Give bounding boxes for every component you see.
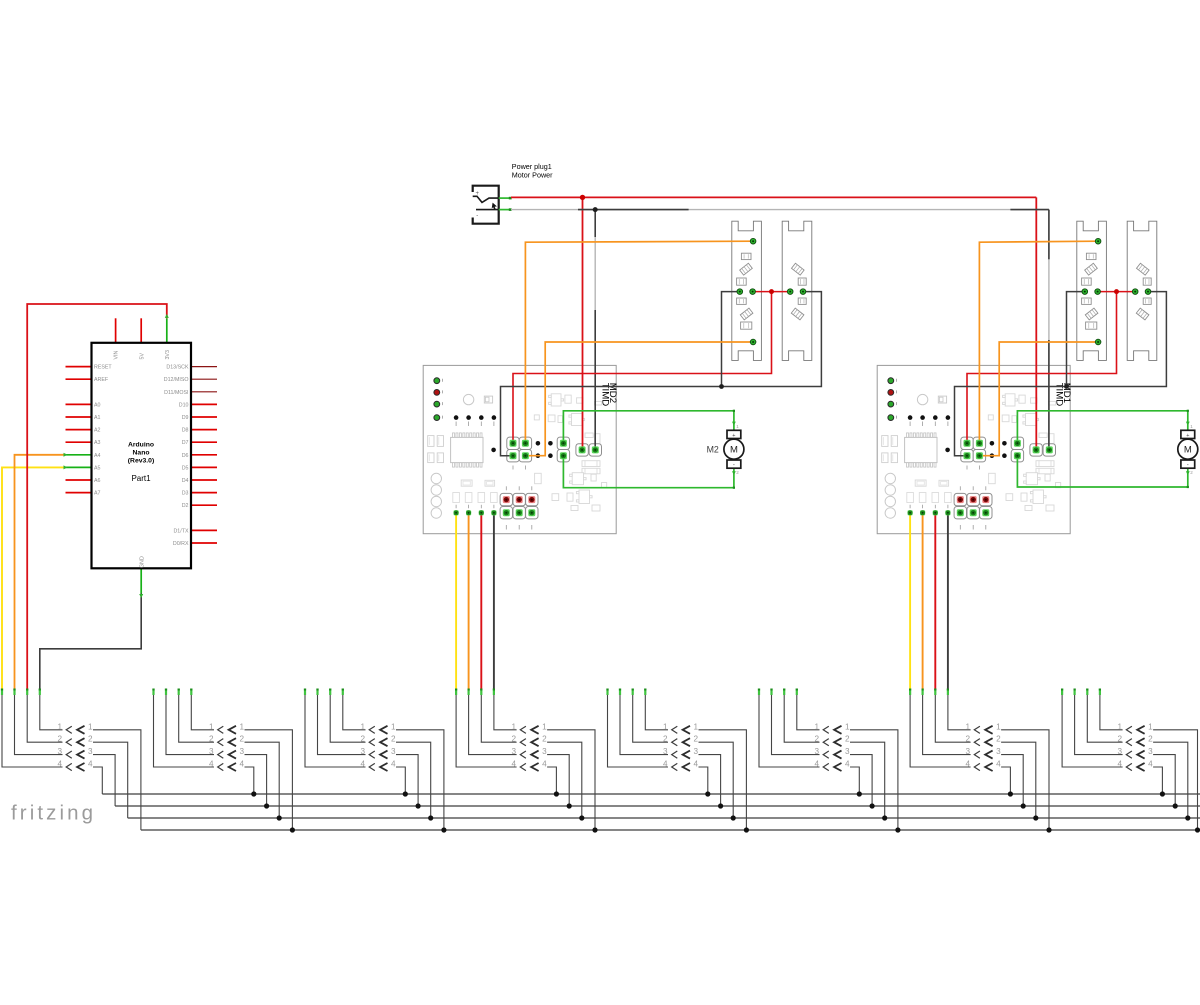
svg-text:Motor Power: Motor Power — [512, 171, 553, 180]
svg-text:4: 4 — [663, 760, 668, 769]
svg-text:2: 2 — [57, 735, 62, 744]
svg-text:D11/MOSI: D11/MOSI — [164, 390, 188, 396]
svg-text:(Rev3.0): (Rev3.0) — [128, 458, 154, 465]
svg-text:4: 4 — [814, 760, 819, 769]
svg-text:2: 2 — [814, 735, 819, 744]
svg-text:D5: D5 — [182, 465, 189, 471]
svg-text:2: 2 — [1148, 735, 1153, 744]
svg-text:+: + — [1186, 433, 1189, 439]
svg-text:4: 4 — [209, 760, 214, 769]
svg-text:fritzing: fritzing — [11, 802, 96, 825]
svg-text:A2: A2 — [94, 428, 101, 434]
svg-text:D2: D2 — [182, 503, 189, 509]
svg-text:4: 4 — [694, 760, 699, 769]
svg-text:1: 1 — [663, 722, 668, 731]
svg-text:A5: A5 — [94, 465, 101, 471]
svg-text:3: 3 — [694, 747, 699, 756]
svg-text:2: 2 — [966, 735, 971, 744]
svg-text:3: 3 — [996, 747, 1001, 756]
svg-text:AREF: AREF — [94, 377, 109, 383]
svg-text:1: 1 — [1148, 722, 1153, 731]
svg-text:2: 2 — [512, 735, 517, 744]
svg-text:4: 4 — [966, 760, 971, 769]
svg-text:3: 3 — [814, 747, 819, 756]
svg-text:5V: 5V — [139, 353, 145, 360]
svg-text:2: 2 — [542, 735, 547, 744]
svg-text:M: M — [1184, 444, 1192, 455]
svg-text:2: 2 — [845, 735, 850, 744]
svg-text:D0/RX: D0/RX — [173, 541, 189, 547]
svg-text:2: 2 — [240, 735, 245, 744]
svg-text:3: 3 — [512, 747, 517, 756]
svg-text:Part1: Part1 — [131, 474, 151, 483]
svg-text:2: 2 — [209, 735, 214, 744]
svg-text:4: 4 — [360, 760, 365, 769]
svg-text:+: + — [732, 433, 735, 439]
svg-text:1: 1 — [391, 722, 396, 731]
svg-text:4: 4 — [240, 760, 245, 769]
svg-text:3: 3 — [360, 747, 365, 756]
svg-text:A6: A6 — [94, 478, 101, 484]
svg-text:A3: A3 — [94, 440, 101, 446]
svg-text:2: 2 — [360, 735, 365, 744]
svg-text:4: 4 — [996, 760, 1001, 769]
svg-text:D8: D8 — [182, 428, 189, 434]
svg-text:1: 1 — [512, 722, 517, 731]
svg-text:1: 1 — [360, 722, 365, 731]
svg-text:D12/MISO: D12/MISO — [164, 377, 189, 383]
svg-text:1: 1 — [209, 722, 214, 731]
svg-text:1: 1 — [966, 722, 971, 731]
svg-text:3: 3 — [542, 747, 547, 756]
svg-text:1: 1 — [240, 722, 245, 731]
svg-text:2: 2 — [391, 735, 396, 744]
svg-text:2: 2 — [88, 735, 93, 744]
svg-text:3: 3 — [57, 747, 62, 756]
svg-text:2: 2 — [1118, 735, 1123, 744]
svg-text:-: - — [476, 213, 478, 219]
svg-text:-: - — [733, 463, 735, 469]
svg-text:1: 1 — [996, 722, 1001, 731]
svg-text:M2: M2 — [707, 444, 719, 454]
svg-text:D3: D3 — [182, 491, 189, 497]
svg-text:A7: A7 — [94, 491, 101, 497]
svg-text:3: 3 — [88, 747, 93, 756]
svg-text:4: 4 — [512, 760, 517, 769]
svg-text:4: 4 — [542, 760, 547, 769]
svg-text:3V3: 3V3 — [165, 350, 171, 359]
svg-text:2: 2 — [996, 735, 1001, 744]
svg-text:4: 4 — [391, 760, 396, 769]
svg-text:Nano: Nano — [133, 450, 150, 457]
svg-text:3: 3 — [966, 747, 971, 756]
svg-text:D7: D7 — [182, 440, 189, 446]
svg-text:RESET: RESET — [94, 365, 112, 371]
svg-text:1: 1 — [845, 722, 850, 731]
svg-text:M: M — [730, 444, 738, 455]
svg-text:3: 3 — [209, 747, 214, 756]
svg-text:3: 3 — [1118, 747, 1123, 756]
svg-text:2: 2 — [663, 735, 668, 744]
svg-text:Arduino: Arduino — [128, 442, 154, 449]
svg-text:3: 3 — [391, 747, 396, 756]
svg-text:+: + — [476, 191, 480, 197]
svg-text:3: 3 — [1148, 747, 1153, 756]
svg-text:1: 1 — [57, 722, 62, 731]
svg-text:A1: A1 — [94, 415, 101, 421]
svg-text:1: 1 — [88, 722, 93, 731]
svg-text:1: 1 — [1118, 722, 1123, 731]
svg-text:-: - — [1187, 463, 1189, 469]
svg-text:D9: D9 — [182, 415, 189, 421]
svg-text:A4: A4 — [94, 453, 101, 459]
svg-text:D10: D10 — [179, 402, 189, 408]
svg-text:D1/TX: D1/TX — [173, 528, 188, 534]
svg-text:4: 4 — [1148, 760, 1153, 769]
svg-text:1: 1 — [542, 722, 547, 731]
svg-text:3: 3 — [845, 747, 850, 756]
svg-text:1: 1 — [814, 722, 819, 731]
svg-text:4: 4 — [1118, 760, 1123, 769]
svg-text:3: 3 — [663, 747, 668, 756]
svg-text:3: 3 — [240, 747, 245, 756]
svg-text:VIN: VIN — [114, 350, 120, 359]
svg-text:A0: A0 — [94, 402, 101, 408]
svg-text:4: 4 — [57, 760, 62, 769]
svg-text:D6: D6 — [182, 453, 189, 459]
svg-text:D4: D4 — [182, 478, 189, 484]
svg-text:4: 4 — [845, 760, 850, 769]
svg-text:1: 1 — [694, 722, 699, 731]
svg-text:D13/SCK: D13/SCK — [166, 365, 189, 371]
svg-text:GND: GND — [139, 556, 145, 568]
svg-text:4: 4 — [88, 760, 93, 769]
svg-text:2: 2 — [694, 735, 699, 744]
